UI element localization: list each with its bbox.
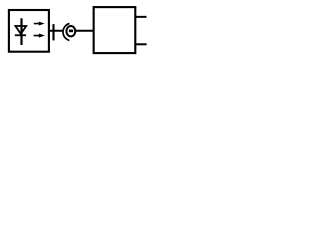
LED cathode bar bbox=[15, 34, 26, 36]
LED transmitter box bbox=[9, 10, 49, 52]
light arrow 2 bbox=[34, 34, 45, 38]
receiver box bbox=[94, 7, 136, 53]
output terminal top bbox=[136, 16, 147, 18]
connector female arc bbox=[63, 24, 70, 41]
LED triangle bbox=[15, 26, 26, 34]
connector male circle bbox=[66, 26, 75, 36]
output terminal bottom bbox=[136, 43, 147, 45]
connector pin bar bbox=[69, 30, 73, 33]
connector bulkhead tick bbox=[52, 24, 54, 40]
wire from connector to receiver bbox=[76, 30, 94, 32]
light arrow 1 bbox=[34, 22, 45, 26]
wire from transmitter to connector bbox=[49, 30, 63, 32]
LED lead bbox=[20, 18, 22, 45]
